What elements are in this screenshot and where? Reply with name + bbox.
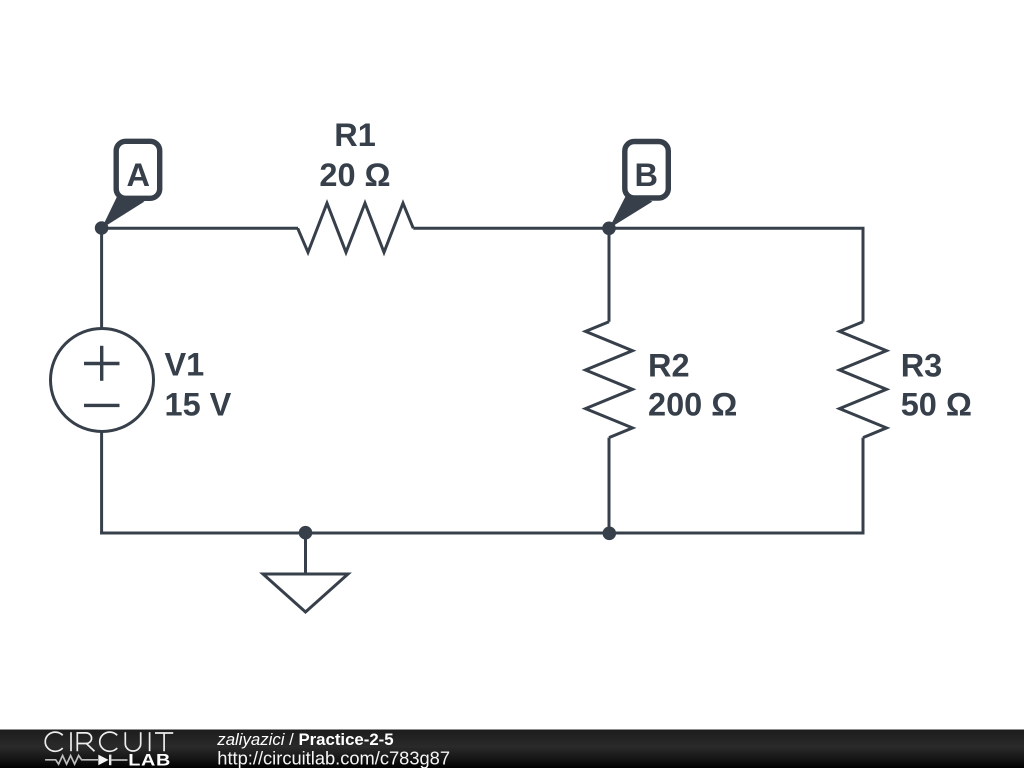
svg-text:zaliyazici / Practice-2-5: zaliyazici / Practice-2-5 bbox=[216, 730, 393, 749]
svg-text:B: B bbox=[634, 157, 657, 193]
junction dot ground node bbox=[299, 526, 313, 540]
wire top from R1 to node B bbox=[413, 227, 609, 230]
svg-text:R2: R2 bbox=[648, 348, 690, 384]
svg-text:200 Ω: 200 Ω bbox=[648, 386, 737, 422]
footer bar bbox=[0, 730, 1024, 768]
junction dot node A bbox=[95, 221, 109, 235]
wire R3 bottom to bottom rail bbox=[862, 438, 865, 535]
svg-text:20 Ω: 20 Ω bbox=[319, 157, 390, 193]
svg-text:LAB: LAB bbox=[128, 750, 171, 768]
resistor R1 bbox=[298, 203, 414, 252]
svg-text:http://circuitlab.com/c783g87: http://circuitlab.com/c783g87 bbox=[217, 748, 450, 768]
wire top right and right side down to R3 bbox=[609, 228, 863, 321]
svg-text:R1: R1 bbox=[334, 117, 376, 153]
svg-text:V1: V1 bbox=[165, 347, 205, 383]
wire R2 bottom to bottom rail bbox=[608, 438, 611, 533]
resistor R3 bbox=[840, 322, 887, 438]
wire bottom rail bbox=[100, 532, 863, 535]
svg-text:15 V: 15 V bbox=[165, 386, 232, 422]
junction dot R2 bottom node bbox=[603, 527, 617, 541]
junction dot node B bbox=[602, 222, 616, 236]
voltage source V1 bbox=[51, 329, 154, 432]
CircuitLab logo bbox=[45, 732, 173, 768]
ground bbox=[263, 533, 348, 612]
node label B bbox=[609, 142, 668, 229]
svg-text:R3: R3 bbox=[901, 348, 943, 384]
wire node A down to V1 bbox=[100, 228, 103, 330]
wire node B down to R2 bbox=[608, 228, 611, 321]
svg-text:A: A bbox=[126, 157, 149, 193]
resistor R2 bbox=[586, 322, 633, 438]
wire top from node A to R1 bbox=[102, 227, 298, 230]
node label A bbox=[102, 141, 160, 228]
svg-text:50 Ω: 50 Ω bbox=[901, 386, 972, 422]
wire V1 bottom down to bottom rail bbox=[100, 431, 103, 535]
